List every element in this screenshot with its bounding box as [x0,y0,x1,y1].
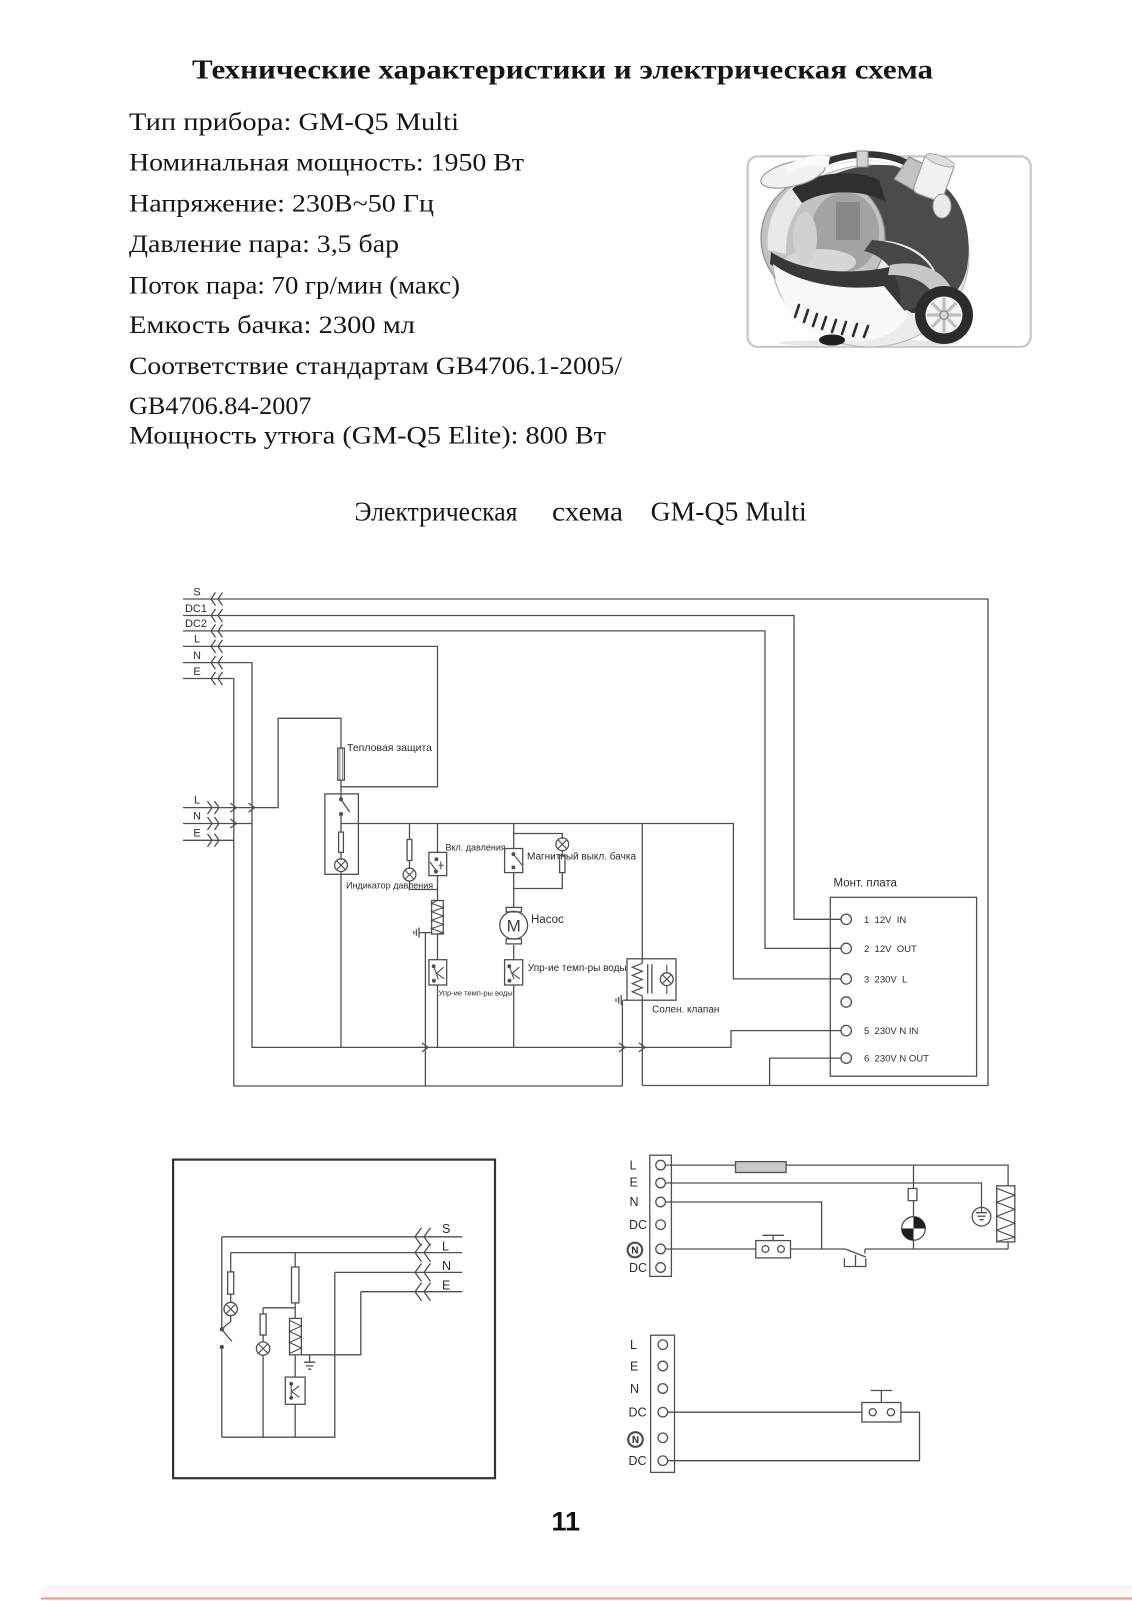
device shadow [778,340,958,347]
wire N row [665,1202,821,1249]
wire E [183,679,622,1087]
wire pump stem up through fuse [913,1165,915,1217]
wire [437,876,439,901]
wire [340,852,342,860]
svg-text:Напряжение: 230В~50 Гц: Напряжение: 230В~50 Гц [129,190,434,217]
wire lamp to N bus [340,872,342,1048]
net label DC1 [185,603,207,615]
connector L inlet [208,801,220,814]
foot [819,335,845,346]
svg-text:Насос: Насос [531,914,564,926]
svg-text:Соответствие стандартам GB4706: Соответствие стандартам GB4706.1-2005/ [129,353,622,380]
net label N inlet [193,811,201,823]
board box Монт. плата [830,897,976,1076]
svg-text:1 12V IN: 1 12V IN [864,915,906,926]
wire ground node to E bus [424,933,426,1086]
wire lamp H12 to bus [262,1355,264,1437]
wire L [231,1252,463,1254]
net label S [193,587,200,599]
thermostat K1 water temp [429,960,447,985]
resistor R3 [560,855,565,872]
svg-text:Технические характеристики и э: Технические характеристики и электрическ… [192,53,933,84]
svg-text:11: 11 [552,1506,581,1536]
fuse F1 thermal protector [338,748,345,780]
net label DC2 [185,618,207,630]
lamp H12 [256,1342,269,1355]
wire [340,815,342,832]
svg-text:DC: DC [629,1261,647,1275]
svg-text:DC2: DC2 [185,618,207,630]
hop tick N inlet over E drop [230,819,236,828]
wire main L bus to board 230V L [341,824,841,979]
junction hop tick [639,1043,645,1052]
branch pressure indicator: wire [409,824,411,840]
svg-text:Тип прибора: GM-Q5 Multi: Тип прибора: GM-Q5 Multi [129,109,459,136]
pin labels [629,1338,647,1468]
label Вкл. давления [446,843,506,853]
pin DC [658,1407,668,1417]
wire [561,850,563,855]
pin label N circled [628,1432,643,1447]
connector E [415,1283,431,1301]
connector E inlet [208,834,220,847]
svg-text:L: L [442,1240,449,1254]
wire S [183,599,988,1086]
svg-text:3 230V L: 3 230V L [864,974,907,985]
wire [262,1308,264,1314]
svg-text:S: S [193,587,200,599]
connector DC1 [211,609,223,622]
wire to solenoid valve [641,824,643,964]
wire fuse column top [294,1253,296,1267]
svg-text:Поток пара: 70 гр/мин (макс): Поток пара: 70 гр/мин (макс) [129,272,460,299]
net label N [442,1259,451,1273]
svg-text:L: L [630,1158,637,1172]
wire L [183,646,438,786]
svg-text:Упр-ие темп-ры воды: Упр-ие темп-ры воды [528,963,627,974]
label Упр-ие темп-ры воды [528,963,627,974]
wire [230,1294,232,1302]
lamp H4 solenoid [660,973,673,986]
pin DC [656,1220,666,1230]
lamp H2 pressure indicator [403,868,416,881]
svg-text:Давление пара: 3,5 бар: Давление пара: 3,5 бар [129,231,399,258]
ground solenoid [616,995,627,1005]
pin E [656,1178,666,1188]
wire N2 row mid [791,1248,846,1250]
resistor R11 [228,1272,234,1294]
svg-text:DC: DC [629,1218,647,1232]
terminal 1 [841,914,851,924]
wire solenoid ground to E bus [621,1000,623,1086]
wire [513,945,515,960]
wire N [222,1272,462,1437]
pump motor iron [902,1217,926,1241]
wire DC row [668,1411,862,1413]
svg-text:GB4706.84-2007: GB4706.84-2007 [129,391,312,420]
svg-text:N: N [442,1259,451,1273]
switch S1 contacts [340,798,343,801]
wire N2 row right [865,1242,1008,1249]
svg-text:Номинальная мощность: 1950 Вт: Номинальная мощность: 1950 Вт [129,150,524,177]
pin L [656,1160,666,1170]
connector N inlet [208,817,220,830]
wire N inlet [183,823,252,825]
svg-text:схема: схема [552,497,623,527]
svg-text:Вкл. давления: Вкл. давления [446,843,506,853]
resistor R1 [339,832,344,852]
silver wheel arch [888,263,956,313]
svg-text:N: N [193,811,201,823]
net label N [193,650,201,662]
funnel elbow [894,157,926,190]
svg-text:Упр-ие темп-ры воды: Упр-ие темп-ры воды [439,989,513,998]
wire lamp to switch node [222,1316,231,1329]
net label L inlet [194,795,200,807]
resistor R12 [260,1314,266,1335]
ground boiler [414,928,432,938]
net label L [442,1240,449,1254]
terminal strip X2 [651,1335,675,1472]
wire E [310,1292,463,1355]
svg-text:Мощность утюга (GM-Q5 Elite):: Мощность утюга (GM-Q5 Elite): 800 Вт [129,422,606,449]
lamp H3 tank [556,838,569,851]
wire lamp H2 down [410,881,438,890]
connector DC2 [211,624,223,637]
wire N2 row left [665,1248,755,1250]
connector L [211,640,223,653]
terminal 6 [841,1053,851,1063]
pin N2 [658,1433,668,1443]
pin N [656,1197,666,1207]
wire solenoid coil to S bus [641,1000,643,1085]
svg-text:N: N [632,1435,639,1446]
net label S [442,1222,450,1236]
wire E inlet [183,839,234,841]
wire switch to pump [513,873,515,907]
steam microswitch SB1 [756,1241,791,1258]
heating element iron [997,1186,1015,1242]
net label E inlet [193,828,200,840]
photo frame [748,156,1031,346]
label Насос [531,914,564,926]
pin DC2 [658,1456,668,1466]
fuse F11 [292,1267,299,1303]
tank dark lid band [792,173,886,203]
terminal 3 [841,974,851,984]
device body base [771,165,969,347]
label Магнитный выкл. бачка [527,851,636,863]
wire loop to DC2 [668,1412,920,1461]
hop tick L inlet over N drop [249,803,255,812]
pin N [658,1384,668,1394]
wire lamp branch rejoin [514,873,563,889]
thermostat K2 water temp [505,960,523,985]
wire lamp column link [263,1307,295,1309]
pin L [658,1340,668,1350]
label Упр-ие темп-ры воды small [439,989,513,998]
pressure switch S2 [429,852,447,875]
wire terminal 6 to S bus [770,1058,841,1085]
wire to tank switch [513,824,515,849]
wire thermostat K2 to N bus [513,985,515,1047]
svg-text:N: N [631,1246,638,1257]
measuring cup knob [912,151,956,202]
junction hop tick [422,1043,428,1052]
vents [795,305,868,337]
svg-text:Индикатор давления: Индикатор давления [346,881,433,891]
connector L [415,1244,431,1262]
wire heater to thermostat [437,934,439,960]
svg-text:DC: DC [629,1406,647,1420]
svg-text:M: M [507,916,521,935]
terminal 5 [841,1025,851,1035]
svg-text:5 230V N IN: 5 230V N IN [864,1026,919,1037]
switch S11 [220,1328,223,1331]
pump motor M1 [506,907,521,912]
svg-text:Магнитный выкл. бачка: Магнитный выкл. бачка [527,851,636,863]
wire [294,1303,296,1319]
terminal 2 [841,943,851,953]
iron thermostat K21 [844,1249,865,1267]
svg-text:GM-Q5 Multi: GM-Q5 Multi [651,497,807,527]
dark mid diagonal band [770,252,940,313]
svg-text:N: N [630,1382,639,1396]
label Монт. плата [834,878,898,890]
wire tank lamp branch [514,834,563,839]
thermostat K11 [285,1377,305,1404]
svg-text:DC: DC [629,1454,647,1468]
switch box S1 [325,794,359,874]
wire fuse to switch [340,780,342,798]
wire to pressure switch [437,824,439,853]
net label E [442,1279,450,1293]
ground boiler unit [301,1355,315,1369]
label Солен. клапан [652,1005,719,1016]
dark right flank [864,240,941,312]
terminal labels [864,915,929,1065]
wire DC1 [183,616,841,920]
pin labels [629,1158,647,1275]
svg-text:6 230V N OUT: 6 230V N OUT [864,1054,929,1065]
trigger microswitch SB2 [862,1403,901,1423]
connector N [211,656,223,669]
wire E row [665,1183,981,1207]
wire thermostat to bus [294,1404,296,1437]
water tank [761,176,885,300]
svg-text:Емкость бачка: 2300 мл: Емкость бачка: 2300 мл [129,312,415,339]
svg-text:S: S [442,1222,450,1236]
connector N [415,1263,431,1281]
svg-text:Солен. клапан: Солен. клапан [652,1005,719,1016]
wire DC2 [183,631,841,949]
unit outline box [173,1160,495,1479]
connector E [211,672,223,685]
wire S [222,1236,462,1238]
wire N [183,663,841,1048]
net label L [194,634,200,646]
terminal 4 [841,997,851,1007]
hop tick L inlet over E drop [230,803,236,812]
solenoid valve Y1 [627,959,676,1000]
wire S drop to switch [221,1237,223,1328]
svg-text:2 12V OUT: 2 12V OUT [864,944,917,955]
fuse tube iron [736,1162,787,1173]
tank magnetic switch S3 [505,849,523,873]
fuse pump [908,1189,917,1201]
pin DC2 [656,1263,666,1273]
svg-text:DC1: DC1 [185,603,207,615]
svg-text:E: E [630,1176,638,1190]
footer red rule [41,1585,1132,1598]
wire L row [665,1165,1008,1186]
wire thermostat to N bus [437,985,439,1047]
pin label N circled [628,1243,643,1258]
white nozzle blade [758,154,828,193]
wire heater to thermostat [294,1355,296,1377]
pin E [658,1361,668,1371]
heater EH11 [290,1318,302,1354]
svg-text:L: L [630,1338,637,1352]
svg-text:Монт. плата: Монт. плата [834,878,898,890]
svg-text:L: L [194,795,200,807]
svg-text:Электрическая: Электрическая [355,497,518,527]
net label E [193,666,200,678]
svg-text:E: E [193,828,200,840]
svg-text:E: E [630,1359,638,1373]
svg-text:Тепловая защита: Тепловая защита [347,742,432,754]
top handle [799,154,918,179]
earth terminal circle [972,1207,991,1226]
white lower body [773,264,908,341]
dark upper dome [830,165,969,305]
svg-text:E: E [193,666,200,678]
heater EH1 boiler [432,901,444,935]
lamp H1 power indicator [335,859,348,872]
connector S [415,1228,431,1246]
wire [262,1335,264,1342]
wire L inlet [183,718,341,807]
wire L drop [230,1253,232,1272]
wire pump stem down [913,1240,915,1249]
lamp H11 [224,1302,237,1315]
label Индикатор давления [346,881,433,891]
connector S [211,593,223,606]
svg-text:L: L [194,634,200,646]
terminal strip X1 [650,1155,672,1276]
pin N2 [656,1244,666,1254]
junction hop tick [619,1043,625,1052]
resistor R2 [407,840,412,861]
svg-text:N: N [193,650,201,662]
svg-text:E: E [442,1279,450,1293]
svg-text:N: N [630,1195,639,1209]
wheel [915,286,973,344]
wire switch to bus [221,1349,223,1438]
wire [409,861,411,869]
chrome stem [857,151,868,167]
